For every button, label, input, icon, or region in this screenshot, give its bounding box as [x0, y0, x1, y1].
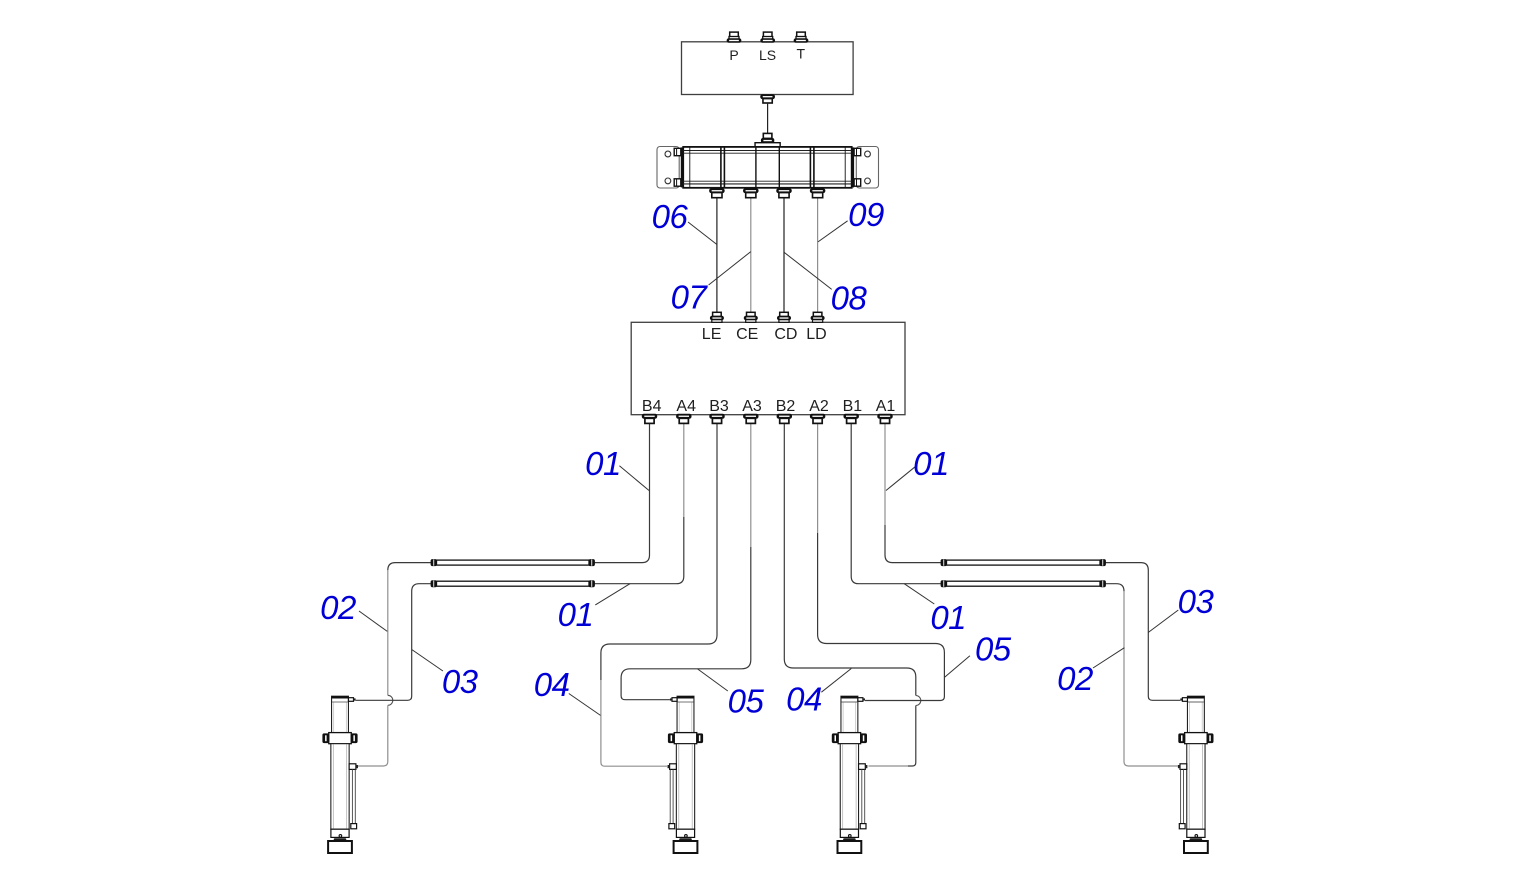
svg-text:05: 05 — [728, 683, 765, 720]
svg-text:04: 04 — [534, 666, 570, 703]
svg-text:B1: B1 — [843, 398, 863, 415]
svg-text:01: 01 — [913, 445, 949, 482]
svg-text:LD: LD — [806, 326, 826, 343]
svg-text:CE: CE — [736, 326, 758, 343]
svg-text:03: 03 — [1178, 583, 1215, 620]
svg-text:08: 08 — [831, 280, 868, 317]
svg-text:A2: A2 — [809, 398, 829, 415]
svg-text:05: 05 — [975, 631, 1012, 668]
svg-text:T: T — [797, 46, 806, 62]
svg-text:03: 03 — [442, 663, 479, 700]
svg-text:02: 02 — [1057, 660, 1093, 697]
svg-text:09: 09 — [848, 196, 884, 233]
svg-text:01: 01 — [930, 599, 966, 636]
svg-text:B4: B4 — [642, 398, 662, 415]
svg-text:P: P — [729, 47, 738, 63]
svg-text:CD: CD — [774, 326, 797, 343]
svg-text:A4: A4 — [676, 398, 696, 415]
svg-text:06: 06 — [652, 198, 689, 235]
svg-text:B3: B3 — [709, 398, 729, 415]
svg-text:02: 02 — [320, 589, 356, 626]
svg-text:LE: LE — [702, 326, 722, 343]
svg-text:01: 01 — [585, 445, 621, 482]
svg-text:04: 04 — [786, 681, 822, 718]
svg-text:A3: A3 — [742, 398, 762, 415]
svg-text:07: 07 — [671, 279, 709, 316]
svg-text:A1: A1 — [876, 398, 896, 415]
svg-text:B2: B2 — [776, 398, 796, 415]
svg-text:01: 01 — [558, 596, 594, 633]
svg-text:LS: LS — [759, 47, 776, 63]
